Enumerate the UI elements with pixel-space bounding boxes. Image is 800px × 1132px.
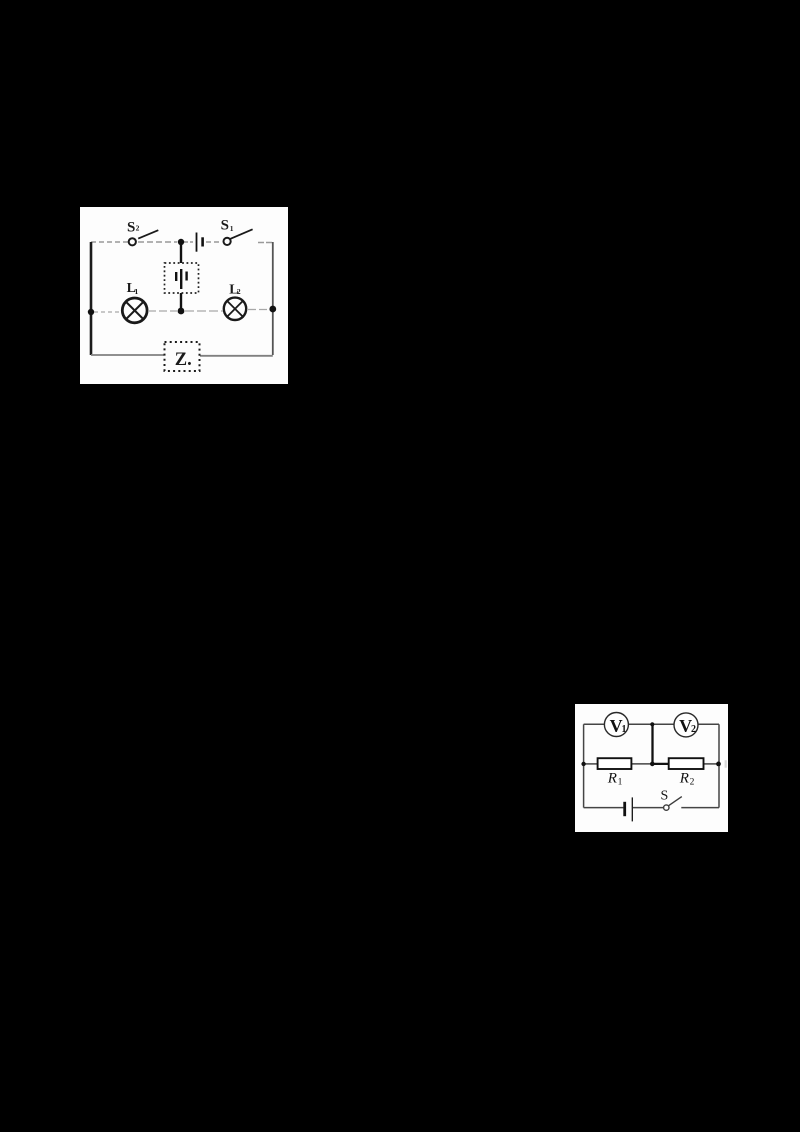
svg-text:1: 1 — [618, 777, 623, 787]
svg-text:2: 2 — [237, 287, 241, 296]
svg-text:S: S — [661, 789, 669, 804]
svg-text:1: 1 — [230, 224, 234, 233]
svg-text:2: 2 — [691, 724, 696, 735]
svg-text:S: S — [127, 220, 135, 236]
svg-text:R: R — [607, 771, 617, 787]
svg-text:2: 2 — [136, 224, 140, 233]
svg-text:1: 1 — [135, 287, 139, 296]
svg-text:R: R — [679, 771, 689, 787]
svg-text:Z.: Z. — [175, 350, 192, 370]
svg-text:2: 2 — [690, 777, 695, 787]
svg-text:1: 1 — [622, 724, 627, 735]
svg-text:S: S — [221, 218, 229, 234]
